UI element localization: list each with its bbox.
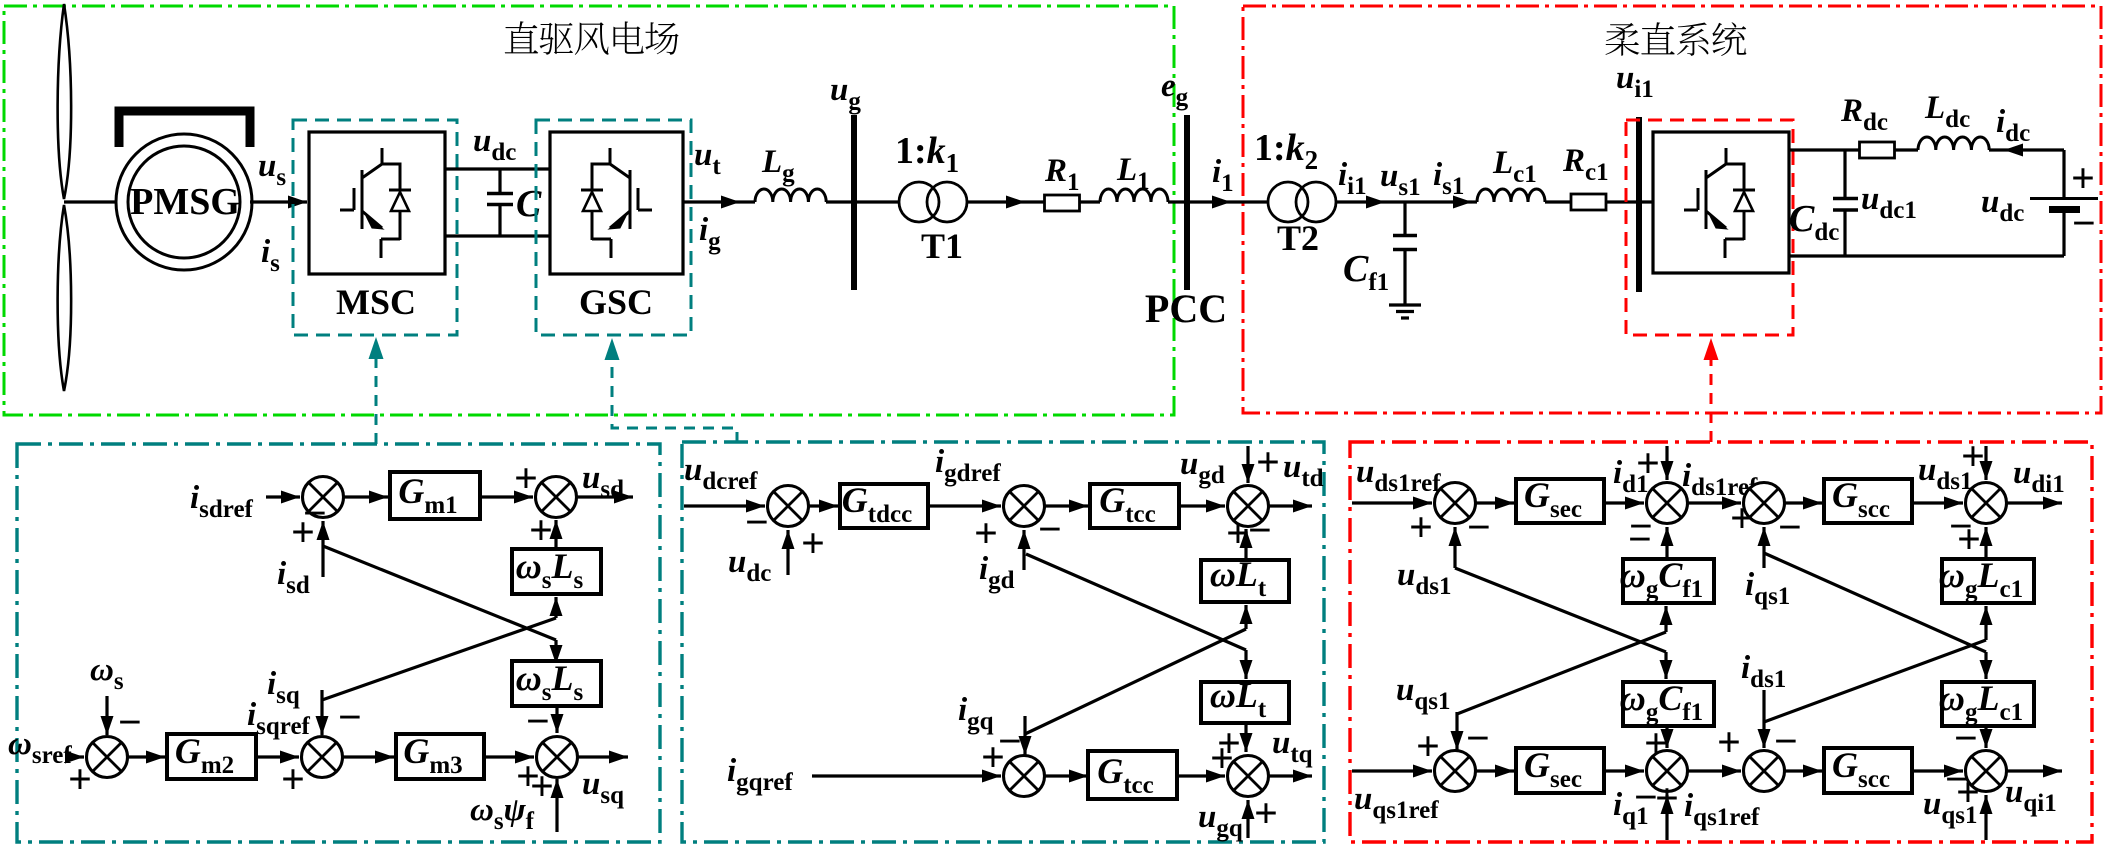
wire S4 to G_m3 (343, 755, 394, 758)
summing junction S2 (536, 477, 577, 518)
wire R2 to R2b (1688, 501, 1741, 504)
arrow wgCf1-2 to R6 (1665, 726, 1668, 748)
resistor R_c1 (1571, 194, 1606, 210)
summing junction R8 (1966, 751, 2007, 792)
svg-text:−: − (338, 695, 362, 741)
svg-text:+: + (1210, 736, 1234, 782)
wire G_sec to R2 (1604, 501, 1644, 504)
block G_scc upper (1824, 479, 1912, 523)
summing junction M5 (1228, 756, 1269, 797)
block G_tcc lower (1088, 751, 1177, 799)
block G_m2 (167, 734, 256, 779)
summing junction R7 (1744, 751, 1785, 792)
wire R1 to G_sec (1476, 501, 1514, 504)
input i_sq down (320, 690, 323, 735)
svg-text:−: − (118, 700, 142, 746)
summing junction S3 (87, 737, 128, 778)
input omega_s down (105, 696, 108, 735)
GSC IGBT with diode (mirrored) (581, 148, 652, 258)
summing junction M2 (1004, 486, 1045, 527)
wire G_scc to R2c (1912, 501, 1963, 504)
wire GSC to bus u_g (683, 200, 740, 203)
inductor L1 (1100, 189, 1168, 202)
svg-text:+: + (1717, 720, 1741, 766)
inductor L_g (755, 189, 826, 202)
input i_gq down (1023, 716, 1026, 755)
input i_ds1 down (1762, 690, 1765, 748)
wire G_m2 to S4 (256, 755, 299, 758)
summing junction M4 (1004, 756, 1045, 797)
svg-text:+: + (1961, 434, 1985, 480)
arrow wLt2 to M5 (1244, 723, 1247, 752)
summing junction R2b (1744, 483, 1785, 524)
wire into R1 (1352, 501, 1432, 504)
capacitor C_f1 shunt (1403, 202, 1406, 234)
svg-text:−: − (1038, 507, 1062, 553)
input u_qs1 down (1455, 712, 1458, 750)
wire R_dc to L_dc (1895, 148, 1918, 151)
svg-text:PCC: PCC (1145, 286, 1227, 331)
wire M4 to G_tcc2 (1045, 774, 1088, 777)
cross wire C from i_gd (1026, 554, 1246, 650)
input u_ds1 up (1453, 527, 1456, 568)
output u_sd (577, 495, 633, 498)
dashed arrow VSC to control (1710, 352, 1713, 442)
output u_di1 (2007, 501, 2062, 504)
wire into R5 (1352, 769, 1432, 772)
summing junction R5 (1435, 751, 1476, 792)
wire G_sec2 to R6 (1604, 769, 1644, 772)
input top into R2 (1665, 446, 1668, 480)
arrow wsLs2 to S5 (555, 706, 558, 733)
resistor R1 (1045, 195, 1080, 211)
stator bracket over PMSG (119, 111, 250, 147)
svg-text:+: + (801, 521, 825, 567)
MSC control frame (17, 444, 660, 842)
resistor R_dc (1860, 142, 1895, 158)
capacitor C_dc (1843, 150, 1846, 197)
summing junction R1 (1435, 483, 1476, 524)
green frame: wind-farm region 直驱风电场 (4, 6, 1174, 415)
svg-text:+: + (1409, 505, 1433, 551)
svg-text:GSC: GSC (579, 282, 653, 322)
wire R_c1 to VSC (1606, 200, 1653, 203)
wire dc bottom (1789, 254, 2064, 257)
summing junction R2 (1647, 483, 1688, 524)
wire L1 to PCC (1168, 200, 1187, 203)
svg-text:+: + (281, 757, 305, 803)
cross wire E from u_ds1 (1455, 568, 1666, 652)
input i_gd up (1022, 530, 1025, 570)
input u_gq up (1246, 800, 1249, 838)
wire dc link top (445, 167, 550, 170)
capacitor C dc-link (498, 169, 501, 193)
wire M2 to G_tcc (1045, 504, 1088, 507)
output u_td (1269, 504, 1312, 507)
svg-text:−: − (1774, 719, 1798, 765)
svg-text:+: + (1730, 496, 1754, 542)
red frame: VSC-HVDC region 柔直系统 (1243, 6, 2101, 413)
wire L_g to bus (826, 200, 899, 203)
wire G_scc2 to R8 (1912, 769, 1963, 772)
block wsLs upper (512, 549, 601, 594)
svg-text:+: + (1644, 721, 1668, 767)
input top into R2c (1984, 446, 1987, 480)
wire G_m1 to S2 (480, 495, 533, 498)
wire with i_dc arrow (1989, 148, 2064, 151)
MSC IGBT with diode (340, 148, 411, 258)
svg-text:+: + (1636, 441, 1660, 487)
bus PCC (1184, 115, 1190, 290)
ground symbol (1389, 303, 1421, 306)
svg-text:−: − (1954, 716, 1978, 762)
svg-text:PMSG: PMSG (130, 181, 240, 223)
input top into M3 (1246, 446, 1249, 483)
summing junction R6 (1647, 751, 1688, 792)
VSC control frame (1350, 442, 2092, 842)
arrow wsLs1 to S2 (554, 520, 557, 549)
wire R5 to G_sec2 (1476, 769, 1514, 772)
output u_qi1 (2007, 769, 2062, 772)
cross wire F from u_qs1 (1457, 632, 1666, 714)
wire G_tcc to M3 (1179, 504, 1225, 507)
block wgLc1 lower (1942, 682, 2034, 726)
wire G_tcc2 to M5 (1179, 774, 1225, 777)
block G_scc lower (1824, 748, 1912, 793)
input i_qs1 up (1762, 527, 1765, 568)
cross wire B from i_sq (322, 618, 556, 700)
block wLt upper (1201, 560, 1289, 602)
arrow wLt1 to M3 (1244, 529, 1247, 560)
block G_tdcc (840, 484, 928, 528)
wire into M4 (812, 774, 1001, 777)
label wind farm title (505, 21, 679, 55)
svg-text:+: + (514, 456, 538, 502)
dashed arrow GSC to control (612, 352, 737, 443)
svg-text:T1: T1 (921, 226, 963, 266)
wire dc link bottom (445, 234, 550, 237)
wire into S3 (66, 755, 84, 758)
svg-text:T2: T2 (1277, 218, 1319, 258)
summing junction S4 (302, 737, 343, 778)
input bottom R8 u_qs1 (1984, 795, 1987, 840)
block wsLs lower (512, 661, 601, 706)
wire node to L_c1 (1405, 200, 1472, 203)
summing junction S5 (537, 737, 578, 778)
svg-text:+: + (1256, 440, 1280, 486)
converter VSC box (1653, 132, 1789, 273)
arrow wgLc1-2 to R8 (1984, 726, 1987, 748)
wire M1 to G_tdcc (809, 504, 838, 507)
input bottom R6 (1665, 795, 1668, 840)
wire PMSG to MSC (250, 200, 307, 203)
cross wire G from i_qs1 (1764, 553, 1986, 652)
MSC dashed enclosure (293, 120, 457, 335)
wire S1 to G_m1 (344, 495, 388, 498)
generator PMSG (116, 134, 252, 270)
block G_m3 (396, 734, 484, 779)
wire dc top (1789, 148, 1859, 151)
svg-text:+: + (530, 764, 554, 810)
svg-text:−: − (745, 500, 769, 546)
transformer T1 (899, 182, 939, 222)
summing junction S1 (303, 477, 344, 518)
block G_m1 (390, 472, 480, 519)
block wgCf1 lower (1623, 682, 1714, 726)
input i_sd (321, 521, 324, 577)
VSC IGBT with diode (1684, 148, 1755, 258)
label HVDC system title (1605, 22, 1746, 56)
svg-text:C: C (516, 183, 542, 225)
svg-text:−: − (2072, 201, 2096, 247)
wire T2 to node u_s1 (1336, 200, 1385, 203)
svg-text:MSC: MSC (336, 282, 416, 322)
wire into sum1 (266, 495, 300, 498)
block wLt lower (1201, 682, 1289, 723)
cross wire H from i_ds1 (1764, 640, 1986, 722)
svg-text:+: + (291, 510, 315, 556)
wind turbine blades (58, 4, 72, 391)
bus u_i1 (1636, 117, 1642, 292)
VSC dashed enclosure (1626, 120, 1793, 335)
converter MSC box (309, 132, 445, 274)
wire G_tdcc to M2 (928, 504, 1001, 507)
svg-text:−: − (526, 699, 550, 745)
wire PCC to T2 (1190, 200, 1231, 203)
input ws psi_f (555, 779, 558, 832)
output u_sq (578, 755, 628, 758)
wire R1 to L1 (1079, 200, 1100, 203)
wire into M1 (684, 504, 765, 507)
wire R2b to G_scc (1785, 501, 1822, 504)
input u_dc up (786, 530, 789, 575)
summing junction M1 (768, 486, 809, 527)
block G_sec lower (1516, 748, 1604, 793)
inductor L_dc (1918, 137, 1989, 150)
wire turbine to PMSG (64, 200, 116, 203)
bus u_g (851, 115, 857, 290)
converter GSC box (550, 132, 683, 274)
GSC control frame (682, 442, 1324, 842)
svg-text:−: − (1778, 505, 1802, 551)
output u_tq (1269, 774, 1312, 777)
svg-text:−: − (1467, 505, 1491, 551)
dashed arrow MSC to control (375, 352, 378, 444)
wire R7 to G_scc2 (1785, 769, 1822, 772)
block G_sec upper (1516, 479, 1604, 523)
arrow wgCf1-1 to R2 (1665, 527, 1668, 559)
dc source u_dc (2062, 150, 2065, 197)
wire L_c1 to R_c1 (1545, 200, 1571, 203)
inductor L_c1 (1477, 189, 1545, 202)
wire G_m3 to S5 (484, 755, 534, 758)
GSC dashed enclosure (536, 120, 691, 335)
block G_tcc upper (1090, 484, 1179, 528)
svg-text:+: + (2071, 156, 2095, 202)
wire T1 to R1 (967, 200, 1025, 203)
wire S3 to G_m2 (128, 755, 165, 758)
svg-text:+: + (1254, 791, 1278, 837)
cross wire A from i_sd (323, 546, 556, 640)
block wgLc1 upper (1942, 559, 2034, 603)
summing junction R2c (1966, 483, 2007, 524)
block wgCf1 upper (1623, 559, 1714, 603)
transformer T2 (1268, 182, 1308, 222)
summing junction M3 (1228, 486, 1269, 527)
cross wire D from i_gq (1025, 629, 1246, 734)
wire R6 to R7 (1688, 769, 1741, 772)
arrow wgLc1-1 to R2c (1984, 527, 1987, 559)
